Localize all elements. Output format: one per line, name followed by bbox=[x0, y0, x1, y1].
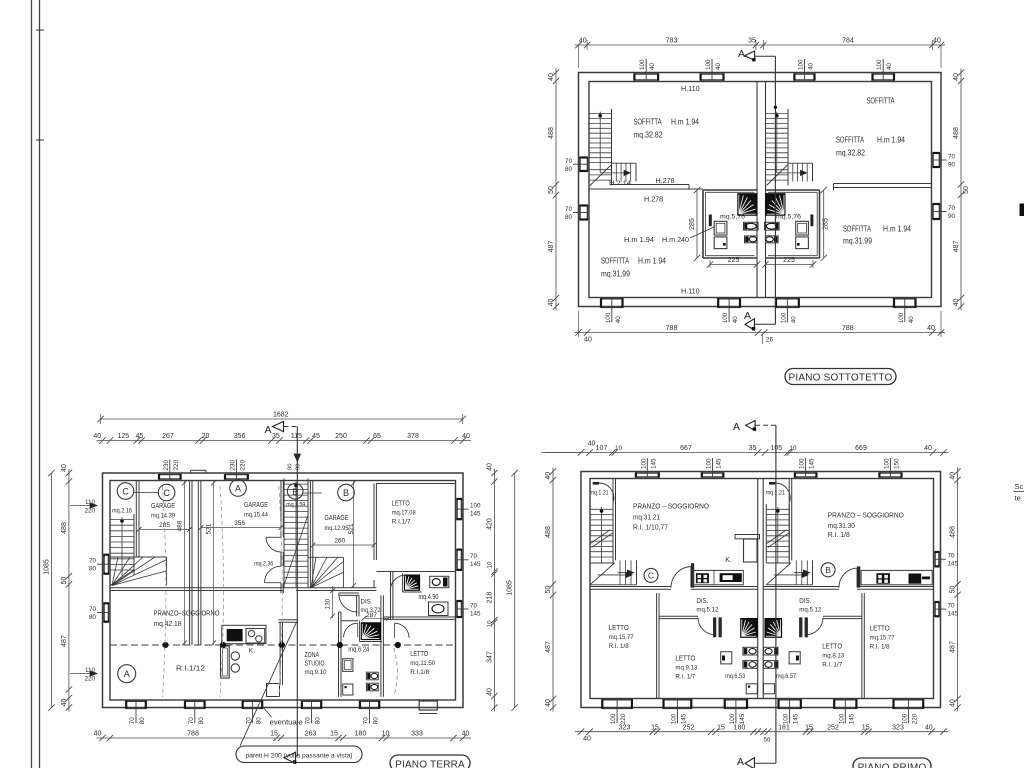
svg-text:10: 10 bbox=[615, 445, 623, 452]
svg-text:LETTO: LETTO bbox=[392, 499, 410, 508]
primo window top 1 bbox=[636, 472, 659, 474]
svg-text:40: 40 bbox=[545, 699, 552, 707]
svg-text:C: C bbox=[122, 487, 129, 497]
svg-text:100: 100 bbox=[640, 458, 647, 469]
svg-text:PRANZO – SOGGIORNO: PRANZO – SOGGIORNO bbox=[633, 502, 709, 511]
svg-text:263: 263 bbox=[305, 731, 317, 738]
svg-text:100: 100 bbox=[722, 312, 729, 323]
svg-text:DIS.: DIS. bbox=[696, 598, 708, 605]
primo section line vertical bbox=[775, 425, 777, 763]
sottotetto toilet right unit bbox=[766, 236, 779, 243]
svg-text:100: 100 bbox=[783, 713, 790, 724]
svg-text:H.278: H.278 bbox=[644, 195, 663, 204]
primo window top 3 bbox=[795, 472, 817, 474]
svg-text:181: 181 bbox=[778, 724, 790, 731]
sheet border left line bbox=[31, 0, 33, 768]
svg-text:LETTO: LETTO bbox=[609, 623, 629, 632]
sottotetto stair left unit turn bbox=[615, 163, 617, 181]
primo tray right unit bbox=[764, 684, 775, 694]
svg-text:mq.31.99: mq.31.99 bbox=[843, 237, 872, 246]
svg-text:145: 145 bbox=[680, 713, 687, 724]
svg-text:26: 26 bbox=[766, 337, 774, 344]
sottotetto window left 1 bbox=[579, 158, 581, 172]
primo circled C bbox=[644, 568, 658, 582]
svg-text:80: 80 bbox=[315, 717, 322, 725]
svg-text:35: 35 bbox=[272, 433, 280, 440]
terra wall bagno490 bottom bbox=[383, 616, 455, 618]
terra wall stair C enclosure bbox=[135, 481, 137, 558]
sottotetto bathroom left unit walls bbox=[703, 189, 757, 191]
svg-text:40: 40 bbox=[548, 299, 555, 307]
svg-text:te: te bbox=[1015, 494, 1021, 503]
primo bath jambs right unit bbox=[805, 617, 808, 637]
primo wall DIS-letto right unit bbox=[823, 615, 862, 617]
terra garage door top 2 bbox=[225, 474, 248, 476]
svg-text:378: 378 bbox=[407, 433, 419, 440]
svg-text:80: 80 bbox=[198, 717, 205, 725]
svg-text:70: 70 bbox=[470, 603, 478, 610]
dim chain bottom sottotetto bbox=[575, 332, 946, 334]
primo window top 2 bbox=[702, 472, 724, 474]
dim 285 left unit bbox=[696, 190, 698, 258]
svg-text:145: 145 bbox=[739, 713, 746, 724]
svg-text:eventuale: eventuale bbox=[270, 720, 303, 727]
svg-text:788: 788 bbox=[187, 731, 199, 738]
svg-text:100: 100 bbox=[798, 59, 805, 70]
sottotetto sink right unit bbox=[765, 222, 780, 230]
svg-text:10: 10 bbox=[486, 561, 493, 569]
svg-text:260: 260 bbox=[334, 538, 345, 545]
terra door arc garage A lower bbox=[265, 566, 282, 583]
terra pareti note oval bbox=[236, 746, 362, 763]
primo door arc pranzo right bbox=[839, 568, 857, 588]
sottotetto washbasin left unit bbox=[714, 221, 727, 235]
svg-text:mq.31.21: mq.31.21 bbox=[633, 515, 660, 522]
svg-text:40: 40 bbox=[924, 445, 932, 452]
svg-text:K.: K. bbox=[249, 648, 255, 655]
leader line to washbasin bbox=[690, 227, 714, 238]
primo stair left turn bbox=[619, 560, 621, 584]
svg-text:70: 70 bbox=[188, 717, 195, 725]
svg-text:347: 347 bbox=[486, 651, 493, 663]
sottotetto wall H.278 left unit bbox=[610, 184, 689, 186]
svg-text:225: 225 bbox=[728, 257, 740, 264]
sottotetto cabinet left unit bbox=[714, 237, 727, 249]
dim 225 right unit bbox=[766, 264, 814, 266]
sottotetto window bottom 1 bbox=[601, 298, 623, 300]
svg-text:145: 145 bbox=[848, 713, 855, 724]
svg-text:521: 521 bbox=[206, 523, 213, 534]
terra small shaft square bbox=[267, 684, 280, 697]
primo flue left bbox=[744, 539, 758, 562]
svg-text:B: B bbox=[343, 488, 349, 498]
svg-text:R.I. 1/7: R.I. 1/7 bbox=[822, 662, 842, 669]
svg-text:488: 488 bbox=[61, 522, 68, 534]
svg-text:15: 15 bbox=[862, 724, 870, 731]
primo window right 1 bbox=[938, 552, 940, 566]
sottotetto window left 2 bbox=[579, 206, 581, 220]
sottotetto stair right unit flight bbox=[765, 109, 767, 165]
sottotetto washbasin right unit bbox=[796, 221, 809, 235]
terra window left 1 bbox=[103, 555, 105, 574]
terra dim chain bottom bbox=[97, 737, 472, 739]
svg-text:H.m 1.94: H.m 1.94 bbox=[624, 235, 654, 244]
terra wc under window bbox=[429, 602, 449, 616]
svg-text:252: 252 bbox=[683, 724, 695, 731]
primo window bottom 2 bbox=[664, 699, 692, 701]
svg-text:100: 100 bbox=[898, 312, 905, 323]
primo sink right black bbox=[909, 574, 922, 584]
svg-text:A: A bbox=[124, 669, 130, 679]
svg-text:PIANO SOTTOTETTO: PIANO SOTTOTETTO bbox=[789, 373, 893, 384]
svg-text:356: 356 bbox=[234, 520, 245, 527]
svg-text:40: 40 bbox=[93, 433, 101, 440]
svg-text:B: B bbox=[825, 565, 831, 575]
terra dim 521 rot garage B bbox=[353, 481, 355, 588]
svg-text:DIS.: DIS. bbox=[361, 599, 373, 606]
svg-text:100: 100 bbox=[706, 458, 713, 469]
svg-text:250: 250 bbox=[335, 433, 347, 440]
terra dim chain top bbox=[97, 440, 472, 442]
svg-text:487: 487 bbox=[545, 641, 552, 653]
svg-text:A: A bbox=[738, 48, 745, 60]
svg-text:mq.6.57: mq.6.57 bbox=[776, 673, 796, 680]
primo washbasin left unit bbox=[721, 652, 732, 664]
svg-text:90: 90 bbox=[948, 162, 956, 169]
svg-text:130: 130 bbox=[325, 598, 332, 609]
terra door arc DIS entry bbox=[339, 594, 358, 613]
svg-text:20: 20 bbox=[202, 433, 210, 440]
terra dim 1682 top bbox=[101, 418, 463, 420]
svg-text:285: 285 bbox=[823, 218, 830, 230]
dim chain left sottotetto bbox=[555, 69, 557, 311]
svg-text:mq.12.95: mq.12.95 bbox=[325, 525, 349, 532]
svg-text:40: 40 bbox=[462, 731, 470, 738]
svg-text:mq.5,76: mq.5,76 bbox=[776, 214, 801, 221]
dim 225 left unit bbox=[710, 264, 757, 266]
primo door arc letto right unit bbox=[806, 617, 824, 635]
svg-text:40: 40 bbox=[94, 731, 102, 738]
svg-text:PRANZO–SOGGIORNO: PRANZO–SOGGIORNO bbox=[154, 609, 220, 618]
svg-text:40: 40 bbox=[579, 38, 587, 45]
primo bidet left unit bbox=[743, 661, 757, 669]
svg-text:285: 285 bbox=[689, 218, 696, 230]
svg-text:145: 145 bbox=[470, 561, 481, 568]
svg-text:80: 80 bbox=[565, 214, 573, 221]
terra letto room walls bbox=[376, 483, 455, 485]
terra stool 1 bbox=[231, 652, 239, 660]
terra inner wall bbox=[110, 481, 456, 701]
sottotetto window bottom 4 bbox=[894, 298, 916, 300]
terra washbasin bagno624 bbox=[343, 659, 353, 672]
terra stair C fan bbox=[112, 557, 118, 586]
svg-text:40: 40 bbox=[486, 688, 493, 696]
svg-text:323: 323 bbox=[619, 724, 631, 731]
svg-text:80: 80 bbox=[288, 464, 294, 470]
svg-text:100: 100 bbox=[705, 59, 712, 70]
svg-text:PRANZO – SOGGIORNO: PRANZO – SOGGIORNO bbox=[828, 511, 904, 520]
svg-text:220: 220 bbox=[173, 459, 180, 470]
dim 285 right unit bbox=[823, 190, 825, 258]
terra opening 110/220 lower bbox=[70, 673, 97, 675]
svg-text:pareti H 200 (volta passante a: pareti H 200 (volta passante a vista) bbox=[245, 753, 352, 760]
svg-text:267: 267 bbox=[162, 433, 174, 440]
sottotetto party wall bbox=[756, 82, 758, 298]
terra kitchen sink bbox=[246, 629, 265, 644]
svg-text:40: 40 bbox=[950, 699, 957, 707]
svg-text:H.m 1.94: H.m 1.94 bbox=[877, 136, 906, 145]
svg-text:PIANO PRIMO: PIANO PRIMO bbox=[858, 763, 927, 768]
svg-text:125: 125 bbox=[117, 433, 129, 440]
svg-text:100: 100 bbox=[639, 59, 646, 70]
svg-text:521: 521 bbox=[348, 523, 355, 534]
svg-text:40: 40 bbox=[790, 316, 797, 324]
svg-text:mq.1.59: mq.1.59 bbox=[286, 502, 305, 509]
terra wall letto left bbox=[373, 484, 375, 561]
primo toilet right unit bbox=[764, 647, 778, 655]
svg-text:H.m 240: H.m 240 bbox=[662, 235, 689, 244]
svg-text:LETTO: LETTO bbox=[410, 649, 428, 658]
svg-text:180: 180 bbox=[734, 724, 746, 731]
svg-text:mq.9.10: mq.9.10 bbox=[305, 669, 327, 676]
svg-text:488: 488 bbox=[953, 127, 960, 139]
svg-text:40: 40 bbox=[927, 325, 935, 332]
terra door arc garage A upper bbox=[266, 537, 281, 552]
terra facade notch top bbox=[191, 469, 206, 471]
svg-text:mq.32.82: mq.32.82 bbox=[634, 131, 663, 140]
svg-text:145: 145 bbox=[716, 458, 723, 469]
svg-text:R.I. 1/7: R.I. 1/7 bbox=[675, 674, 695, 681]
svg-text:SOFFITTA: SOFFITTA bbox=[634, 118, 663, 127]
terra window left 2 bbox=[103, 603, 105, 621]
svg-text:H.m 1.94: H.m 1.94 bbox=[671, 118, 700, 127]
terra wall below garages bbox=[110, 587, 376, 589]
svg-text:10: 10 bbox=[789, 445, 797, 452]
svg-text:40: 40 bbox=[615, 316, 622, 324]
terra dim 356 garage A bbox=[201, 527, 281, 529]
primo kitchen wall stub left bbox=[691, 563, 694, 587]
terra dim 1085 left bbox=[51, 473, 53, 708]
terra stair C flight bbox=[109, 514, 111, 576]
primo stair right flight bbox=[765, 504, 767, 563]
svg-text:mq.8.13: mq.8.13 bbox=[822, 653, 844, 660]
svg-text:100: 100 bbox=[729, 713, 736, 724]
svg-text:50: 50 bbox=[764, 738, 771, 744]
sottotetto bathroom right unit door mark bbox=[810, 215, 813, 227]
terra outer wall bbox=[103, 473, 464, 708]
svg-text:40: 40 bbox=[649, 62, 656, 70]
primo mid wall right unit bbox=[763, 586, 839, 588]
terra garage door top 1 bbox=[159, 474, 181, 476]
terra door arc bagno624 bbox=[344, 623, 358, 637]
svg-text:70: 70 bbox=[89, 558, 97, 565]
svg-text:145: 145 bbox=[793, 713, 800, 724]
primo lower wall letto right bbox=[861, 593, 863, 698]
primo shower left unit bbox=[741, 619, 758, 638]
terra dim 260 garage B bbox=[313, 544, 374, 546]
primo window bottom 6 bbox=[894, 699, 924, 701]
svg-text:SOFFITTA: SOFFITTA bbox=[601, 257, 630, 266]
svg-text:145: 145 bbox=[809, 458, 816, 469]
sottotetto bathroom right unit walls bbox=[766, 189, 820, 191]
svg-text:mq.15.44: mq.15.44 bbox=[244, 512, 268, 519]
svg-text:100: 100 bbox=[901, 713, 908, 724]
svg-text:40: 40 bbox=[732, 316, 739, 324]
svg-text:H.m 1.94: H.m 1.94 bbox=[883, 225, 912, 234]
primo door arc entry left bbox=[593, 482, 599, 485]
svg-text:220: 220 bbox=[84, 676, 95, 683]
svg-text:SOFFITTA: SOFFITTA bbox=[843, 225, 872, 234]
svg-text:487: 487 bbox=[950, 641, 957, 653]
svg-text:mq.31.30: mq.31.30 bbox=[828, 523, 855, 530]
svg-text:333: 333 bbox=[411, 731, 423, 738]
svg-text:356: 356 bbox=[234, 433, 246, 440]
terra wall stair B enclosure bbox=[309, 481, 311, 588]
svg-text:40: 40 bbox=[953, 299, 960, 307]
primo inner wall bbox=[590, 479, 934, 699]
svg-text:220: 220 bbox=[239, 459, 246, 470]
sottotetto outer wall bbox=[579, 73, 942, 307]
terra dim 488 rot bbox=[183, 481, 185, 646]
primo stove left bbox=[696, 573, 709, 583]
svg-text:A: A bbox=[265, 424, 272, 436]
svg-text:145: 145 bbox=[948, 611, 959, 618]
svg-text:10: 10 bbox=[486, 620, 493, 628]
svg-text:110: 110 bbox=[85, 667, 96, 674]
primo dim chain left bbox=[552, 468, 554, 712]
terra window bottom 4 bbox=[302, 700, 321, 702]
svg-text:1085: 1085 bbox=[507, 580, 514, 596]
sottotetto stair right unit turn bbox=[792, 163, 794, 181]
terra circled A bbox=[230, 480, 247, 497]
primo title oval PIANO PRIMO bbox=[853, 758, 931, 768]
terra window right 3 bbox=[461, 601, 463, 617]
svg-text:STUDIO: STUDIO bbox=[305, 659, 325, 668]
primo washbasin right unit bbox=[789, 652, 800, 664]
terra circled B right bbox=[338, 484, 355, 501]
svg-text:10: 10 bbox=[382, 731, 390, 738]
sheet border tick top bbox=[36, 29, 44, 31]
terra vault dashed arcs bbox=[162, 486, 166, 697]
svg-text:mq.1.21: mq.1.21 bbox=[590, 490, 609, 497]
svg-text:100: 100 bbox=[884, 458, 891, 469]
svg-text:mq.15.77: mq.15.77 bbox=[609, 634, 634, 641]
svg-text:R.I.1/12: R.I.1/12 bbox=[176, 664, 205, 673]
sheet border tick mid bbox=[36, 139, 44, 141]
terra party wall bbox=[197, 481, 199, 646]
svg-text:784: 784 bbox=[842, 38, 854, 45]
svg-text:LETTO: LETTO bbox=[870, 624, 890, 633]
svg-text:45: 45 bbox=[136, 433, 144, 440]
svg-text:mq.6.24: mq.6.24 bbox=[348, 647, 369, 654]
sottotetto window right 1 bbox=[939, 153, 941, 167]
section line vertical sottotetto bbox=[774, 56, 776, 324]
svg-text:15: 15 bbox=[270, 731, 278, 738]
primo kitchen counter left bbox=[693, 570, 743, 584]
svg-text:287: 287 bbox=[366, 612, 377, 619]
svg-text:225: 225 bbox=[783, 257, 795, 264]
svg-text:A: A bbox=[733, 421, 740, 433]
terra wall garage C right bbox=[189, 481, 191, 646]
terra toilet bagno624 bbox=[366, 672, 378, 680]
svg-text:R.I.1/8: R.I.1/8 bbox=[410, 669, 429, 676]
sottotetto window right 2 bbox=[939, 204, 941, 219]
svg-text:40: 40 bbox=[953, 73, 960, 81]
primo stair left flight bbox=[589, 504, 591, 563]
svg-text:145: 145 bbox=[470, 611, 481, 618]
svg-text:40: 40 bbox=[950, 472, 957, 480]
svg-text:145: 145 bbox=[948, 561, 959, 568]
terra bidet bagno624 bbox=[366, 683, 378, 691]
primo tray left unit bbox=[746, 684, 757, 694]
primo door arc pranzo left bbox=[671, 567, 691, 588]
svg-text:15: 15 bbox=[805, 724, 813, 731]
svg-text:50: 50 bbox=[61, 577, 68, 585]
svg-text:mq.4.90: mq.4.90 bbox=[419, 594, 439, 601]
primo stair right enclosure wall bbox=[788, 479, 790, 561]
svg-text:40: 40 bbox=[545, 472, 552, 480]
terra volta dotted line bbox=[110, 644, 456, 646]
title oval PIANO SOTTOTETTO bbox=[785, 369, 896, 385]
svg-text:A: A bbox=[737, 756, 744, 768]
terra title oval PIANO TERRA bbox=[390, 755, 470, 768]
svg-text:487: 487 bbox=[548, 241, 555, 253]
svg-text:100: 100 bbox=[470, 503, 481, 510]
sottotetto bathroom left unit door mark bbox=[709, 215, 712, 227]
sottotetto sink left unit bbox=[744, 222, 759, 230]
svg-text:40: 40 bbox=[808, 62, 815, 70]
terra pareti leader line bbox=[240, 622, 297, 747]
terra window bottom 2 bbox=[185, 700, 205, 702]
svg-text:LETTO: LETTO bbox=[822, 642, 842, 651]
svg-text:40: 40 bbox=[462, 433, 470, 440]
terra door arc bagno490 bbox=[390, 575, 406, 591]
svg-text:R.I. 1/8: R.I. 1/8 bbox=[609, 643, 629, 650]
primo window bottom 4 bbox=[779, 699, 801, 701]
svg-text:70: 70 bbox=[565, 158, 573, 165]
svg-text:100: 100 bbox=[610, 713, 617, 724]
svg-text:mq.14.39: mq.14.39 bbox=[151, 513, 175, 520]
svg-text:70: 70 bbox=[948, 553, 956, 560]
terra section marker bottom bbox=[296, 755, 297, 757]
svg-text:H.110: H.110 bbox=[681, 84, 700, 93]
svg-text:70: 70 bbox=[89, 606, 97, 613]
terra circled C 1 bbox=[117, 483, 134, 500]
terra toilet bagno490 bbox=[430, 576, 449, 587]
primo toilet left unit bbox=[743, 647, 757, 655]
primo shower right unit bbox=[765, 619, 782, 638]
sottotetto window bottom 2 bbox=[718, 298, 740, 300]
svg-text:788: 788 bbox=[842, 325, 854, 332]
svg-text:C: C bbox=[163, 488, 170, 498]
svg-text:K.: K. bbox=[725, 557, 732, 564]
svg-text:50: 50 bbox=[950, 586, 957, 594]
primo kitchen counter right bbox=[861, 570, 932, 584]
svg-text:LETTO: LETTO bbox=[675, 654, 695, 663]
svg-text:40: 40 bbox=[584, 337, 592, 344]
svg-text:788: 788 bbox=[666, 325, 678, 332]
sottotetto window top 2 bbox=[701, 73, 724, 75]
primo door arc entry right bbox=[769, 482, 775, 485]
svg-text:mq.42.18: mq.42.18 bbox=[154, 621, 182, 628]
primo bidet right unit bbox=[764, 661, 778, 669]
terra zona studio walls bbox=[279, 619, 299, 621]
sottotetto window top 4 bbox=[873, 73, 895, 75]
svg-text:15: 15 bbox=[651, 724, 659, 731]
sottotetto stair left unit flight bbox=[588, 109, 590, 165]
primo dim chain bottom bbox=[575, 731, 949, 733]
terra window right 1 bbox=[461, 499, 463, 519]
